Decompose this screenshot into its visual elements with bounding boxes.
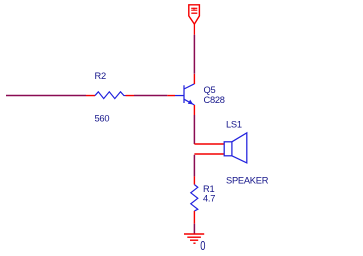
wire R1 to ground	[193, 224, 195, 234]
svg-text:4.7: 4.7	[203, 194, 215, 204]
transistor Q5	[167, 74, 194, 115]
svg-text:SPEAKER: SPEAKER	[226, 175, 269, 185]
resistor R2	[86, 92, 134, 99]
wire R2 to Q5 base	[134, 95, 167, 97]
svg-text:Q5: Q5	[204, 85, 216, 95]
svg-text:C828: C828	[204, 95, 225, 105]
speaker LS1	[194, 133, 246, 163]
resistor R1	[191, 176, 198, 223]
svg-text:R2: R2	[95, 71, 106, 81]
ground	[184, 234, 204, 243]
svg-text:LS1: LS1	[226, 120, 242, 130]
svg-text:R1: R1	[203, 184, 214, 194]
wire from power to collector	[193, 35, 195, 74]
power symbol VCC	[189, 5, 200, 35]
svg-text:0: 0	[200, 238, 205, 253]
wire left input to R2	[6, 95, 86, 97]
wire speaker bottom pin down to R1	[193, 155, 195, 177]
svg-text:560: 560	[95, 114, 110, 124]
wire emitter to speaker top pin	[193, 115, 195, 144]
